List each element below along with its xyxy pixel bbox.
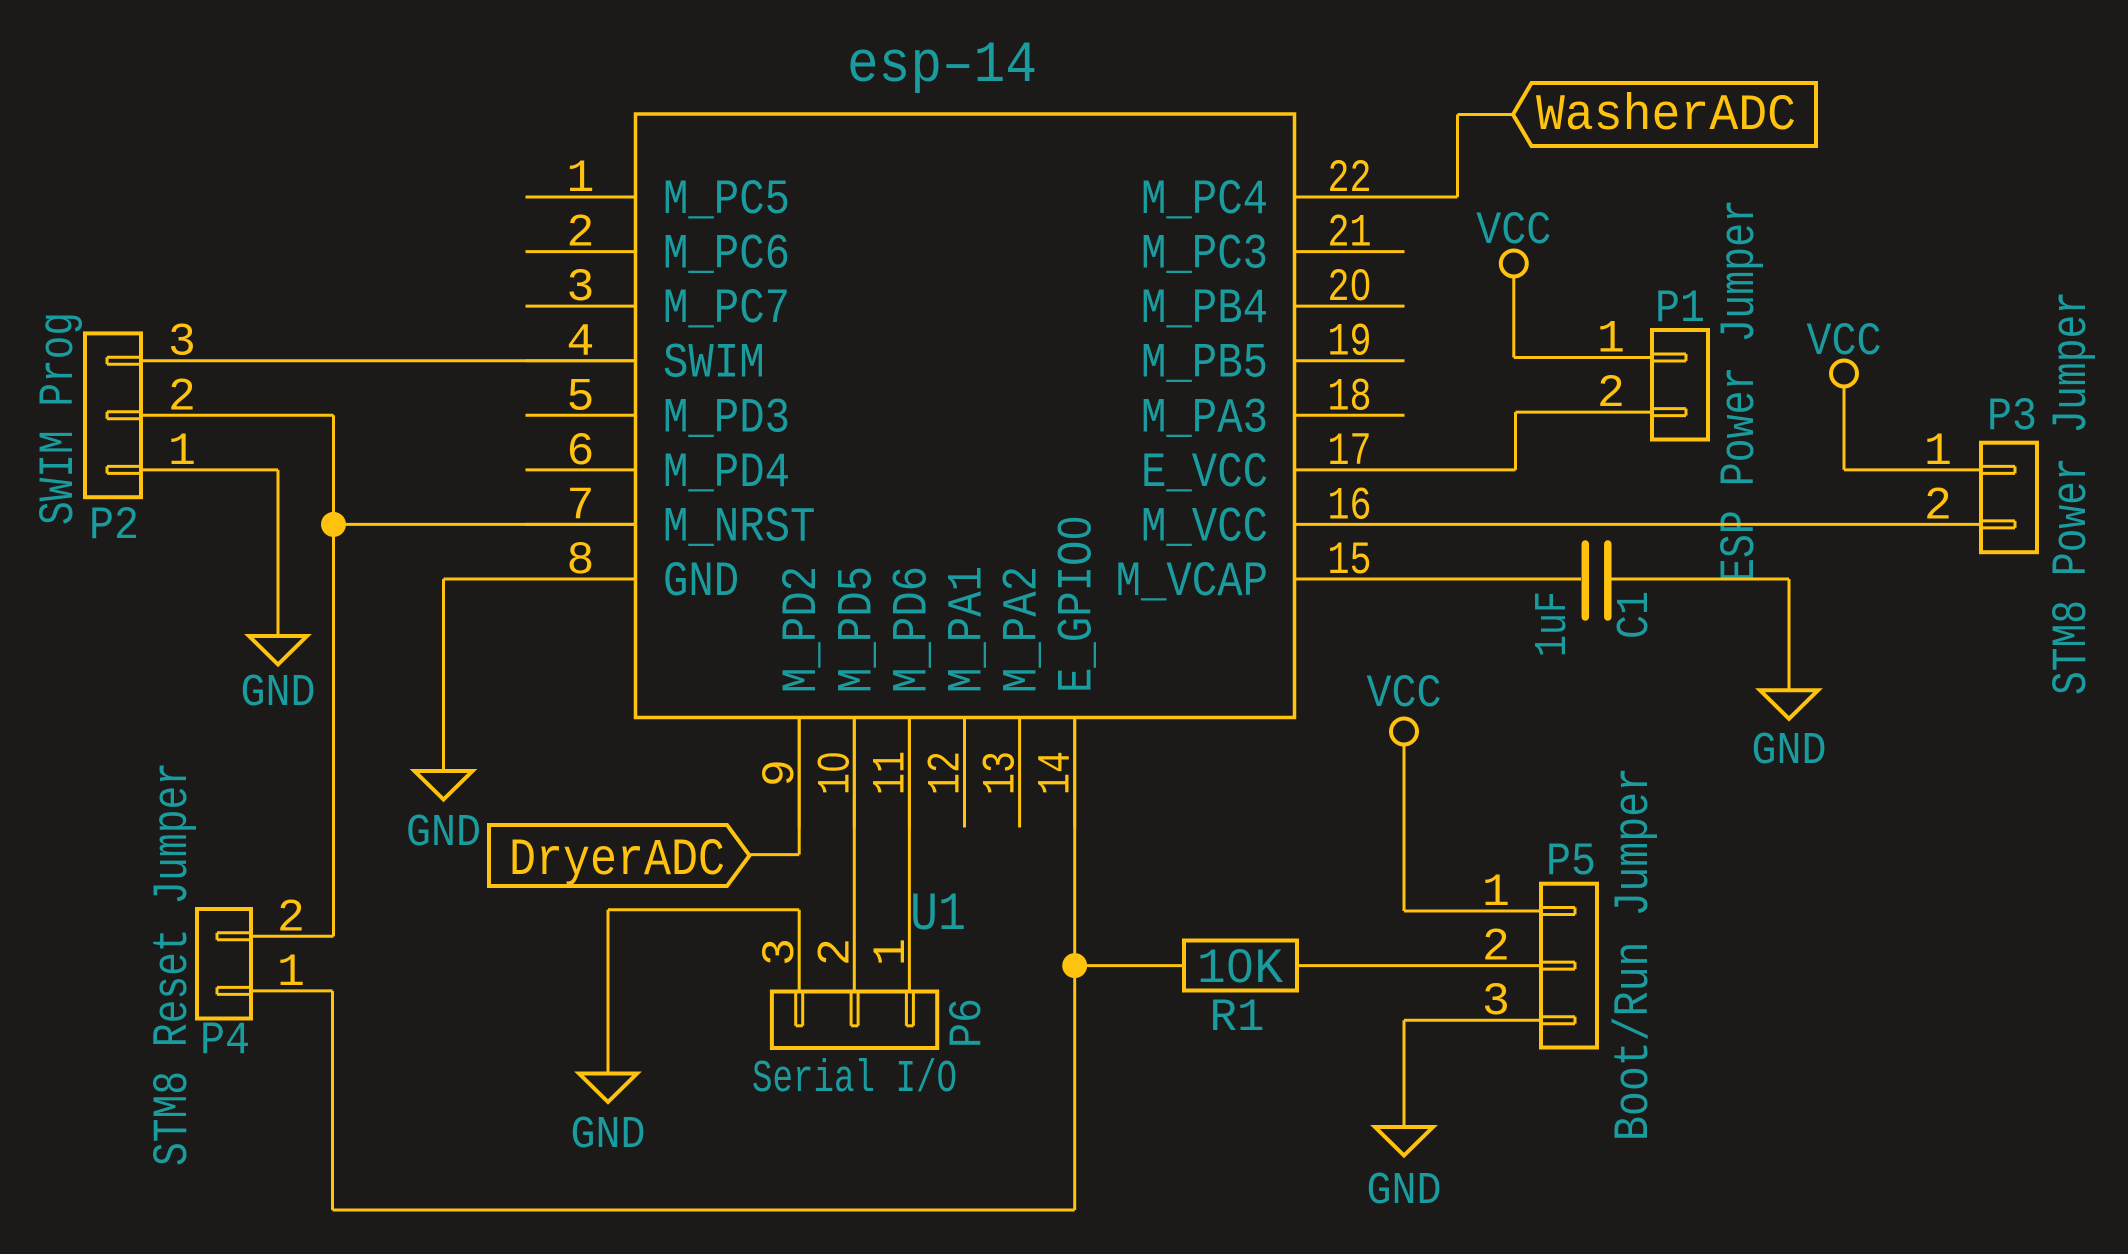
svg-text:esp–14: esp–14 xyxy=(847,34,1037,99)
wire E_VCC to P1.2 xyxy=(1405,468,1516,471)
svg-text:3: 3 xyxy=(168,316,196,369)
svg-text:GND: GND xyxy=(1752,725,1827,777)
svg-text:P5: P5 xyxy=(1546,835,1596,888)
node GPIO0 junction xyxy=(1062,953,1087,978)
svg-text:M_PD5: M_PD5 xyxy=(829,566,885,693)
svg-text:1uF: 1uF xyxy=(1527,591,1579,657)
wire VCC to P3.1 xyxy=(1843,387,1846,470)
svg-text:6: 6 xyxy=(567,425,595,478)
hierarchical label WasherADC xyxy=(1513,83,1816,146)
svg-text:3: 3 xyxy=(1482,975,1510,1028)
svg-text:16: 16 xyxy=(1328,479,1372,532)
wire M_PD5 to P6.2 xyxy=(853,718,856,992)
svg-text:15: 15 xyxy=(1328,534,1372,587)
svg-text:M_PC6: M_PC6 xyxy=(663,227,790,283)
svg-text:22: 22 xyxy=(1328,152,1372,205)
svg-text:STM8 Power Jumper: STM8 Power Jumper xyxy=(2044,291,2100,695)
wire M_VCC to P3.2 xyxy=(1405,523,1982,526)
connector P2 xyxy=(85,333,141,497)
svg-text:18: 18 xyxy=(1328,370,1372,423)
pin 14 E_GPIO0 xyxy=(1073,718,1076,828)
pin 19 M_PB5 xyxy=(1295,359,1405,362)
svg-text:M_PD4: M_PD4 xyxy=(663,445,790,501)
svg-text:STM8 Reset Jumper: STM8 Reset Jumper xyxy=(145,762,201,1166)
svg-text:M_PC4: M_PC4 xyxy=(1141,172,1268,228)
svg-text:SWIM: SWIM xyxy=(663,336,765,392)
svg-text:DryerADC: DryerADC xyxy=(509,830,725,890)
svg-text:GND: GND xyxy=(663,554,739,610)
pin 8 GND xyxy=(526,578,636,581)
svg-text:GND: GND xyxy=(1367,1165,1442,1217)
wire R1 to P5.2 xyxy=(1297,964,1541,967)
pin 9 M_PD2 xyxy=(798,718,801,828)
svg-text:M_VCAP: M_VCAP xyxy=(1116,554,1268,610)
pin 4 SWIM xyxy=(526,359,636,362)
svg-text:M_PB4: M_PB4 xyxy=(1141,281,1268,337)
wire junction to M_NRST xyxy=(334,523,636,526)
wire P6.3 to GND xyxy=(798,910,801,992)
svg-text:E_VCC: E_VCC xyxy=(1141,445,1268,501)
pin 17 E_VCC xyxy=(1295,468,1405,471)
ground xyxy=(1375,1127,1433,1156)
svg-text:P4: P4 xyxy=(200,1014,250,1067)
svg-text:3: 3 xyxy=(567,261,595,314)
wire P4.2 xyxy=(251,935,334,938)
wire VCC to P1.1 xyxy=(1512,277,1515,358)
wire E_GPIO0 down xyxy=(1073,718,1076,1211)
pin 11 M_PD6 xyxy=(908,718,911,828)
svg-text:2: 2 xyxy=(168,370,196,423)
svg-text:M_VCC: M_VCC xyxy=(1141,499,1268,555)
wire P2.3 to SWIM xyxy=(141,359,636,362)
ground xyxy=(249,636,307,665)
ground xyxy=(579,1074,637,1103)
hierarchical label DryerADC xyxy=(489,825,750,886)
svg-text:3: 3 xyxy=(754,938,807,966)
svg-text:U1: U1 xyxy=(910,885,966,946)
svg-text:P6: P6 xyxy=(941,998,994,1048)
pin 2 M_PC6 xyxy=(526,250,636,253)
svg-text:M_PC7: M_PC7 xyxy=(663,281,790,337)
wire vertical NRST net xyxy=(332,415,335,936)
wire P2.2 right xyxy=(141,414,334,417)
resistor R1 10K xyxy=(1184,941,1297,991)
wire M_PD2 to DryerADC xyxy=(798,718,801,855)
svg-text:21: 21 xyxy=(1328,207,1372,260)
pin 20 M_PB4 xyxy=(1295,305,1405,308)
svg-text:WasherADC: WasherADC xyxy=(1536,88,1796,145)
IC esp-14 body xyxy=(636,114,1295,718)
svg-text:VCC: VCC xyxy=(1367,667,1442,720)
connector P5 xyxy=(1541,884,1597,1048)
svg-text:2: 2 xyxy=(810,938,863,966)
svg-text:17: 17 xyxy=(1328,425,1372,478)
connector P4 xyxy=(197,909,251,1019)
svg-text:2: 2 xyxy=(567,207,595,260)
node NRST junction xyxy=(321,512,346,537)
svg-text:2: 2 xyxy=(277,891,305,944)
pin 15 M_VCAP xyxy=(1295,578,1405,581)
svg-text:Serial I/O: Serial I/O xyxy=(752,1053,957,1105)
svg-text:M_PA2: M_PA2 xyxy=(995,566,1051,693)
svg-text:13: 13 xyxy=(975,751,1028,795)
pin 16 M_VCC xyxy=(1295,523,1405,526)
wire GND pin8 xyxy=(444,578,636,581)
svg-text:2: 2 xyxy=(1597,367,1625,420)
wire C1 to GND xyxy=(1608,578,1789,581)
capacitor C1 xyxy=(1582,544,1590,617)
pin 1 M_PC5 xyxy=(526,196,636,199)
pin 18 M_PA3 xyxy=(1295,414,1405,417)
pin 22 M_PC4 xyxy=(1295,196,1405,199)
wire M_VCAP to C1 xyxy=(1405,578,1582,581)
connector P6 xyxy=(772,992,937,1049)
svg-text:P3: P3 xyxy=(1987,390,2037,443)
wire bottom run xyxy=(333,1209,1075,1212)
svg-text:1: 1 xyxy=(1597,313,1625,366)
pin 21 M_PC3 xyxy=(1295,250,1405,253)
svg-text:SWIM Prog: SWIM Prog xyxy=(31,312,87,525)
svg-text:M_PB5: M_PB5 xyxy=(1141,336,1268,392)
svg-text:1: 1 xyxy=(168,425,196,478)
wire P4.1 down xyxy=(251,989,333,992)
ground xyxy=(1760,690,1818,719)
svg-text:M_PD6: M_PD6 xyxy=(884,566,940,693)
svg-text:M_PC5: M_PC5 xyxy=(663,172,790,228)
wire P5.3 to GND xyxy=(1404,1019,1541,1022)
svg-text:M_PD3: M_PD3 xyxy=(663,390,790,446)
connector P3 xyxy=(1981,443,2037,553)
svg-text:2: 2 xyxy=(1482,921,1510,974)
pin 3 M_PC7 xyxy=(526,305,636,308)
svg-text:GND: GND xyxy=(571,1109,646,1161)
wire junction to R1 xyxy=(1075,964,1184,967)
svg-text:C1: C1 xyxy=(1609,591,1661,639)
svg-text:M_PA1: M_PA1 xyxy=(940,566,996,693)
svg-text:E_GPIO0: E_GPIO0 xyxy=(1050,515,1106,693)
svg-text:P1: P1 xyxy=(1655,282,1705,335)
wire P2.1 to GND xyxy=(141,468,278,471)
ground xyxy=(415,771,473,800)
svg-text:GND: GND xyxy=(241,667,316,719)
pin 6 M_PD4 xyxy=(526,468,636,471)
svg-text:Boot/Run Jumper: Boot/Run Jumper xyxy=(1606,767,1662,1141)
svg-text:1: 1 xyxy=(1924,425,1952,478)
svg-text:GND: GND xyxy=(406,807,481,859)
wire M_PC4 to WasherADC xyxy=(1405,196,1458,199)
svg-text:1: 1 xyxy=(277,946,305,999)
svg-text:1: 1 xyxy=(1482,866,1510,919)
svg-text:1: 1 xyxy=(567,152,595,205)
svg-text:M_PD2: M_PD2 xyxy=(774,566,830,693)
pin 13 M_PA2 xyxy=(1018,718,1021,828)
connector P1 xyxy=(1652,330,1708,440)
svg-text:M_PA3: M_PA3 xyxy=(1141,390,1268,446)
svg-text:5: 5 xyxy=(567,370,595,423)
svg-text:P2: P2 xyxy=(89,499,139,552)
pin 10 M_PD5 xyxy=(853,718,856,828)
svg-text:M_NRST: M_NRST xyxy=(663,499,815,555)
svg-text:2: 2 xyxy=(1924,479,1952,532)
pin 5 M_PD3 xyxy=(526,414,636,417)
svg-text:19: 19 xyxy=(1328,316,1372,369)
wire VCC to P5.1 xyxy=(1403,745,1406,912)
svg-text:M_PC3: M_PC3 xyxy=(1141,227,1268,283)
svg-text:R1: R1 xyxy=(1210,991,1265,1044)
svg-text:12: 12 xyxy=(920,751,973,795)
wire M_PD6 to P6.1 xyxy=(908,718,911,992)
pin 7 M_NRST xyxy=(526,523,636,526)
pin 12 M_PA1 xyxy=(963,718,966,828)
